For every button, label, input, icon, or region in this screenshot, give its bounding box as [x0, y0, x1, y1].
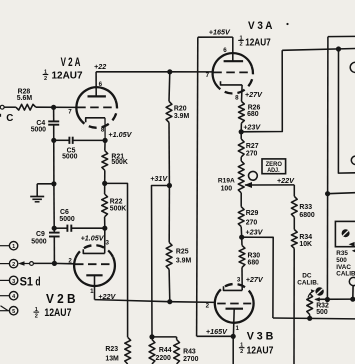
wire +165V top — [198, 36, 233, 38]
wire — [240, 157, 242, 161]
svg-text:+22: +22 — [94, 62, 106, 71]
svg-text:5000: 5000 — [31, 238, 46, 245]
node junction R32 bottom — [307, 316, 312, 321]
V3A plate lead — [232, 37, 234, 61]
wire — [293, 217, 295, 229]
svg-text:3.9M: 3.9M — [176, 257, 192, 264]
capacitor C5 — [68, 137, 70, 144]
wire bottom rail — [273, 317, 355, 320]
stray ink speck — [286, 23, 288, 25]
ZERO ADJ box — [262, 159, 286, 174]
R35 box — [335, 221, 355, 246]
wire — [240, 193, 242, 207]
node junction R21/R22 — [102, 181, 107, 186]
wire — [168, 122, 170, 185]
wire — [240, 123, 242, 132]
svg-text:3: 3 — [237, 276, 241, 283]
svg-text:5000: 5000 — [31, 127, 46, 134]
svg-text:2: 2 — [240, 349, 243, 355]
node junction at V3A grid wire — [167, 69, 172, 74]
svg-text:ADJ.: ADJ. — [267, 167, 280, 174]
wire right rail down — [326, 37, 329, 300]
V2A cathode lead pin 8 — [104, 118, 106, 141]
svg-text:C9: C9 — [36, 231, 45, 238]
wire — [104, 170, 106, 183]
svg-text:5.6M: 5.6M — [17, 95, 33, 102]
wire +22V run — [95, 300, 215, 303]
terminal 1 — [9, 242, 17, 250]
resistor R28 — [16, 104, 36, 110]
node junction R44/R43 — [149, 334, 154, 339]
node junction top rail — [336, 46, 341, 51]
potentiometer R32 — [307, 294, 313, 315]
wire +22V zero-adj run — [245, 184, 294, 186]
svg-text:V 3 B: V 3 B — [247, 330, 274, 342]
terminal 4 wire — [0, 295, 10, 297]
panel jack upper — [350, 62, 355, 72]
svg-text:5000: 5000 — [59, 216, 74, 223]
node junction R25 bottom — [167, 299, 172, 304]
svg-text:S1: S1 — [20, 275, 34, 289]
svg-text:2: 2 — [35, 313, 38, 319]
wire — [104, 140, 106, 150]
svg-text:270: 270 — [246, 219, 258, 226]
svg-text:R34: R34 — [299, 234, 312, 241]
node +1.05V junction — [103, 138, 108, 143]
wire +23V upper to rail — [241, 50, 282, 132]
V3B cathode — [224, 286, 243, 290]
resistor R25 — [166, 242, 172, 269]
terminal 2 wire — [0, 263, 10, 265]
node junction meter tap — [325, 191, 330, 196]
svg-text:R25: R25 — [176, 248, 189, 255]
wire — [309, 315, 311, 319]
wire — [293, 185, 295, 196]
svg-text:7: 7 — [206, 72, 210, 79]
V2B grid (dashed) — [75, 263, 114, 265]
svg-text:R29: R29 — [246, 210, 259, 217]
svg-text:12AU7: 12AU7 — [44, 307, 71, 319]
svg-text:R44: R44 — [159, 347, 172, 354]
node junction ground branch — [51, 181, 56, 186]
wire — [240, 227, 243, 238]
svg-text:+23V: +23V — [245, 227, 263, 236]
wire — [338, 49, 355, 173]
svg-text:680: 680 — [248, 260, 260, 267]
svg-text:2700: 2700 — [183, 356, 198, 363]
terminal 1 wire — [0, 245, 10, 247]
svg-text:5: 5 — [12, 309, 15, 315]
resistor R22 — [102, 194, 108, 217]
V3B plate lead — [232, 309, 235, 337]
panel jack middle — [351, 156, 355, 164]
node junction jack — [350, 297, 355, 302]
svg-text:R33: R33 — [299, 204, 312, 211]
svg-text:+165V: +165V — [206, 327, 228, 336]
wire to V2B grid — [54, 262, 74, 264]
svg-text:12AU7: 12AU7 — [245, 37, 271, 48]
svg-text:2: 2 — [206, 303, 210, 310]
wire — [241, 237, 243, 245]
resistor R29 — [238, 207, 244, 227]
V3A cathode — [221, 81, 243, 85]
svg-text:R27: R27 — [246, 143, 259, 150]
V2A grid (dashed) — [77, 106, 116, 108]
zero adj knob circle — [249, 171, 258, 180]
wire — [37, 183, 54, 185]
wire top rail — [282, 49, 355, 51]
svg-text:270: 270 — [246, 150, 258, 157]
R35 arrow — [349, 242, 355, 247]
R19A wiper arrow — [244, 182, 252, 188]
wire +22 plate to V3A grid — [96, 71, 213, 73]
wiper arrowhead R32 — [314, 297, 320, 301]
V3B grid (dashed) — [217, 303, 251, 305]
svg-text:100: 100 — [221, 186, 233, 193]
switch contact circle — [30, 262, 34, 266]
svg-text:d: d — [35, 275, 40, 289]
wire — [53, 237, 55, 264]
tube V2A envelope — [76, 87, 115, 121]
svg-text:13M: 13M — [105, 355, 119, 362]
svg-text:7: 7 — [68, 108, 72, 115]
svg-text:1: 1 — [12, 244, 15, 250]
V2B cathode — [83, 249, 104, 253]
capacitor C6 — [66, 225, 68, 232]
panel jack lower — [349, 277, 355, 285]
wire — [53, 184, 55, 228]
wire — [168, 186, 170, 243]
wire — [104, 183, 106, 194]
wire — [71, 227, 105, 229]
wire — [33, 262, 54, 264]
svg-text:+165V: +165V — [209, 27, 231, 36]
terminal 5 — [9, 307, 17, 315]
terminal 5 wire — [0, 310, 10, 312]
R35 label arrow — [352, 249, 355, 253]
node junction +23V upper — [239, 129, 244, 134]
node junction — [325, 297, 330, 302]
svg-text:500: 500 — [316, 309, 328, 316]
node junction S1/C9 — [52, 261, 57, 266]
resistor R23 — [125, 337, 131, 364]
wire — [176, 337, 178, 340]
svg-text:+31V: +31V — [150, 174, 168, 183]
node junction cathode/C6 — [102, 226, 107, 231]
node junction C5 branch — [51, 138, 56, 143]
svg-text:R19A: R19A — [218, 178, 235, 185]
wire +23V lower loop — [242, 237, 274, 318]
tube V3A envelope — [213, 53, 252, 88]
R32 wiper curved arrow — [308, 291, 314, 297]
V2A cathode — [86, 118, 105, 123]
svg-text:2: 2 — [12, 262, 15, 268]
capacitor C4 — [48, 120, 59, 122]
V3A grid (dashed) — [213, 71, 252, 73]
svg-text:3: 3 — [12, 279, 15, 285]
svg-text:+22V: +22V — [98, 292, 116, 301]
svg-text:8: 8 — [101, 126, 105, 133]
potentiometer R19A — [238, 161, 244, 193]
capacitor C9 — [49, 232, 60, 234]
svg-text:+27V: +27V — [245, 90, 263, 99]
svg-text:+1.05V: +1.05V — [81, 233, 105, 242]
svg-text:DC: DC — [302, 272, 312, 279]
wire — [53, 107, 55, 121]
svg-text:R43: R43 — [183, 349, 196, 356]
R35 adjust knob — [342, 229, 350, 237]
wire meter run — [316, 298, 355, 300]
wire — [240, 132, 242, 139]
wire — [168, 72, 171, 102]
resistor R33 — [291, 196, 297, 217]
node junction C6 branch — [52, 226, 57, 231]
svg-text:V 3 A: V 3 A — [248, 20, 272, 32]
svg-text:6800: 6800 — [299, 212, 314, 219]
svg-text:V 2 A: V 2 A — [61, 55, 81, 69]
svg-text:C: C — [6, 113, 13, 124]
wire branch to R44/R43 — [152, 186, 170, 337]
resistor R20 — [166, 101, 172, 122]
svg-text:3.9M: 3.9M — [174, 113, 190, 120]
svg-text:6: 6 — [99, 81, 103, 88]
svg-text:12AU7: 12AU7 — [52, 71, 84, 82]
wire — [73, 139, 105, 141]
resistor R27 — [238, 139, 244, 157]
R32 adjust knob — [315, 287, 323, 295]
V2A plate — [88, 95, 106, 97]
svg-text:500K: 500K — [110, 205, 126, 212]
svg-text:12AU7: 12AU7 — [247, 344, 274, 356]
node junction +23V lower — [239, 235, 244, 240]
svg-text:1: 1 — [236, 325, 240, 332]
wire top-right box edge — [328, 35, 355, 37]
wire +165V down run — [197, 37, 198, 336]
terminal 3 wire — [0, 279, 10, 281]
svg-text:2: 2 — [239, 42, 242, 48]
svg-text:+1.05V: +1.05V — [108, 130, 132, 139]
resistor R43 — [174, 340, 180, 364]
svg-text:R23: R23 — [105, 346, 118, 353]
V3A cathode lead pin 8 — [241, 85, 244, 101]
V2A plate lead — [95, 72, 97, 97]
wire — [241, 267, 243, 290]
V2B cathode lead pin 3 — [104, 228, 106, 253]
tube V3B envelope — [215, 295, 254, 323]
wire — [36, 184, 38, 196]
terminal 4 — [9, 292, 17, 300]
wire — [4, 106, 16, 108]
resistor R34 — [291, 230, 297, 249]
wire — [54, 227, 67, 229]
svg-text:CALIB.: CALIB. — [336, 271, 355, 278]
svg-text:1: 1 — [90, 288, 94, 295]
ground — [30, 196, 44, 198]
wire — [53, 228, 55, 232]
resistor R44 — [149, 340, 155, 364]
svg-text:+27V: +27V — [246, 275, 264, 284]
svg-text:500K: 500K — [111, 159, 127, 166]
node junction V3B plate — [231, 334, 236, 339]
svg-text:R20: R20 — [174, 105, 187, 112]
wire — [328, 193, 355, 194]
svg-text:V 2 B: V 2 B — [46, 291, 76, 306]
wire — [104, 217, 106, 228]
svg-text:10K: 10K — [299, 241, 312, 248]
V3A plate — [224, 60, 244, 62]
wire — [152, 336, 177, 338]
svg-text:+22V: +22V — [277, 176, 295, 185]
svg-text:CALIB.: CALIB. — [297, 279, 319, 286]
switch S1 wiper arrow — [18, 261, 25, 266]
node junction +31V — [167, 183, 172, 188]
wire off bottom — [232, 336, 234, 364]
jack lower lead — [352, 286, 354, 300]
V3B plate — [226, 308, 244, 310]
svg-text:2: 2 — [44, 76, 47, 82]
svg-text:5000: 5000 — [62, 154, 77, 161]
svg-text:+23V: +23V — [243, 122, 261, 131]
resistor R30 — [239, 245, 245, 267]
terminal 2 — [9, 259, 17, 267]
wire — [293, 248, 295, 364]
svg-text:3: 3 — [106, 240, 110, 247]
svg-text:680: 680 — [247, 111, 259, 118]
terminal 3 — [9, 276, 17, 284]
wire branch to R23 — [105, 183, 128, 337]
resistor R21 — [102, 151, 108, 171]
wire — [168, 269, 171, 301]
svg-text:R30: R30 — [248, 252, 261, 259]
wire — [53, 125, 55, 184]
tube V2B envelope — [74, 257, 115, 286]
terminal 5 tick — [1, 306, 9, 311]
V2B plate lead pin 1 — [94, 275, 96, 299]
svg-text:8: 8 — [235, 94, 239, 101]
edge tick — [0, 114, 1, 117]
resistor R26 — [239, 101, 245, 123]
V2B plate — [86, 274, 102, 276]
wire — [36, 106, 77, 108]
svg-text:6: 6 — [223, 47, 227, 54]
node junction R28/C4/grid — [51, 105, 56, 110]
terminal C (input jack) — [0, 105, 4, 109]
wire — [197, 335, 234, 337]
wire — [54, 139, 70, 141]
svg-text:2200: 2200 — [156, 355, 171, 362]
